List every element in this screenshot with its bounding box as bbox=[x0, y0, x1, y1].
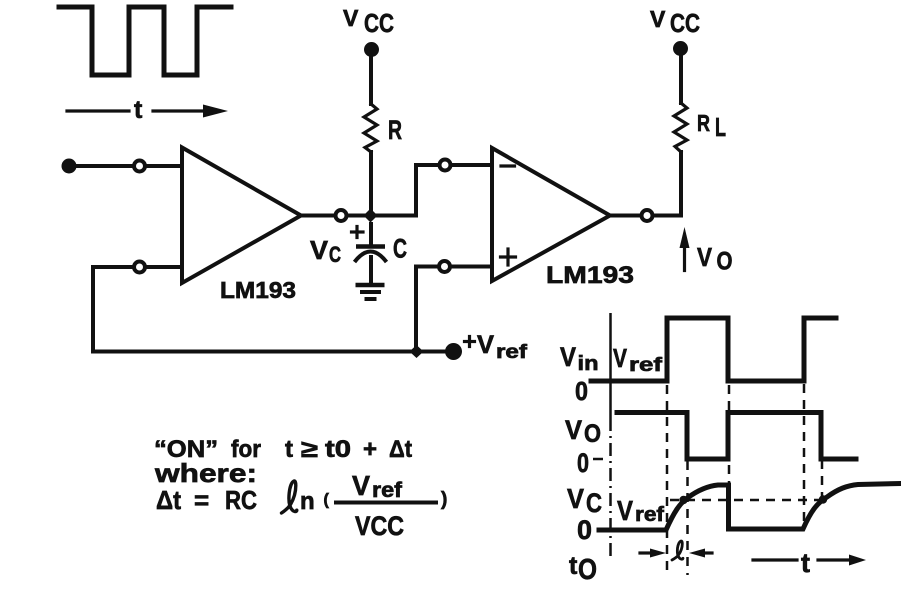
capacitor C (polarized) top plate bbox=[356, 244, 385, 249]
svg-text:Δt=RC: Δt=RC bbox=[156, 485, 257, 515]
label VO (panel) bbox=[565, 415, 601, 448]
label Vref (VC panel) bbox=[617, 495, 664, 526]
wire feedback down and across to Vref node bbox=[93, 267, 410, 352]
svg-text:V: V bbox=[565, 415, 582, 445]
svg-text:V: V bbox=[560, 342, 576, 372]
svg-text:t: t bbox=[801, 548, 810, 578]
pin circle U2 output bbox=[642, 210, 653, 221]
label VC (capacitor voltage) bbox=[310, 235, 341, 267]
wire U2 plus input down to Vref node bbox=[414, 267, 418, 347]
wire VC node right and up to U2 inverting input bbox=[376, 165, 438, 216]
wire U1 feedback input segment bbox=[133, 265, 182, 269]
label + polarity of C bbox=[352, 227, 364, 238]
svg-text:V: V bbox=[697, 242, 713, 272]
svg-text:V: V bbox=[617, 495, 633, 526]
dashed vertical at Vin falling edge bbox=[728, 385, 731, 501]
svg-text:): ) bbox=[441, 489, 447, 510]
formula script ell and n bbox=[282, 481, 315, 515]
svg-text:V: V bbox=[567, 483, 584, 514]
delta-t marker arrows with script ell bbox=[640, 541, 712, 560]
input terminal dot bbox=[62, 159, 77, 174]
svg-text:CC: CC bbox=[364, 8, 394, 38]
resistor RL bbox=[674, 103, 687, 152]
label t0 (time origin) bbox=[569, 552, 597, 586]
label RL bbox=[697, 110, 726, 142]
wire VC node up to resistor R bbox=[369, 152, 373, 215]
dashed vertical at t0 rising edge bbox=[666, 385, 669, 575]
svg-text:V: V bbox=[310, 235, 329, 265]
capacitor C bottom curved plate bbox=[355, 252, 387, 263]
svg-text:R: R bbox=[697, 110, 710, 136]
svg-text:t: t bbox=[134, 96, 143, 124]
wire pin circle to U2 plus input bbox=[451, 265, 492, 269]
arrow VO (output voltage) bbox=[680, 227, 690, 271]
svg-text:V: V bbox=[650, 6, 666, 32]
svg-text:C: C bbox=[586, 488, 602, 518]
waveform Vin trace bbox=[591, 318, 836, 381]
wire VC node down to capacitor C bbox=[369, 224, 373, 245]
svg-text:C: C bbox=[329, 242, 341, 267]
label VCC (right) bbox=[650, 6, 700, 38]
wire pin circle to U1 bbox=[147, 164, 181, 168]
pin circle U2 non-inverting input bbox=[439, 261, 450, 272]
svg-text:where:: where: bbox=[154, 458, 257, 488]
svg-text:V: V bbox=[352, 470, 370, 501]
waveform VC trace bbox=[599, 484, 899, 531]
svg-text:0: 0 bbox=[575, 376, 588, 406]
crossing dot 1 VC=Vref bbox=[679, 496, 687, 504]
svg-text:L: L bbox=[715, 112, 726, 142]
label Vin bbox=[560, 342, 599, 375]
formula fraction numerator Vref bbox=[352, 470, 403, 502]
svg-text:V: V bbox=[477, 331, 494, 359]
svg-text:CC: CC bbox=[670, 8, 700, 38]
label VC (panel) bbox=[567, 483, 602, 518]
svg-text:LM193: LM193 bbox=[546, 262, 634, 289]
svg-text:0: 0 bbox=[577, 515, 592, 545]
svg-text:R: R bbox=[388, 115, 402, 145]
waveform axis vertical bbox=[609, 313, 612, 556]
dashed horizontal Vref level line bbox=[670, 499, 822, 502]
VCC terminal dot (right) bbox=[673, 41, 688, 56]
resistor R bbox=[364, 104, 377, 152]
label +Vref bbox=[465, 331, 528, 363]
formula fraction bar bbox=[334, 501, 438, 505]
waveform VO trace bbox=[617, 413, 856, 460]
wire U2 output to pin circle bbox=[610, 214, 640, 218]
svg-text:ref: ref bbox=[496, 342, 528, 363]
dashed vertical at second crossing bbox=[821, 460, 824, 497]
label 0 with dash (VO panel) bbox=[577, 448, 603, 478]
VCC terminal dot (left) bbox=[364, 42, 379, 57]
node VC junction (diamond) bbox=[364, 209, 378, 223]
svg-text:VCC: VCC bbox=[355, 511, 404, 541]
op-amp U2 (LM193 comparator, right) bbox=[492, 148, 610, 281]
terminal dot +Vref bbox=[445, 343, 462, 360]
svg-text:ref: ref bbox=[629, 355, 663, 376]
svg-text:n: n bbox=[300, 488, 315, 515]
svg-text:ref: ref bbox=[372, 479, 403, 502]
label Vref (Vin panel) bbox=[613, 343, 663, 376]
svg-text:V: V bbox=[613, 343, 628, 373]
label plus sign U2 non-inverting input bbox=[501, 249, 516, 265]
svg-text:(: ( bbox=[324, 492, 330, 509]
wire resistor RL to VCC terminal bbox=[679, 53, 683, 103]
svg-text:LM193: LM193 bbox=[220, 277, 296, 303]
wire capacitor to ground bbox=[369, 257, 373, 283]
wire U1 output pin to VC node bbox=[348, 214, 366, 218]
wire U2 output pin to RL bbox=[654, 152, 681, 216]
crossing dot 2 VC=Vref bbox=[819, 495, 827, 503]
wire resistor R to VCC terminal bbox=[369, 54, 373, 104]
svg-text:C: C bbox=[393, 234, 407, 264]
svg-text:0: 0 bbox=[577, 448, 589, 478]
dashed vertical at t0+dt bbox=[686, 461, 689, 575]
pin circle U2 inverting input bbox=[440, 160, 451, 171]
ground bbox=[356, 285, 385, 299]
svg-text:ref: ref bbox=[635, 504, 664, 526]
time axis arrow t (bottom) bbox=[753, 548, 866, 578]
wire pin circle to U2 minus input bbox=[452, 163, 492, 167]
pin circle U1 output bbox=[336, 210, 347, 221]
wire U2 non-inverting input stub bbox=[416, 265, 438, 269]
input square-wave symbol bbox=[59, 7, 231, 75]
svg-text:O: O bbox=[578, 554, 597, 586]
label VO (output) bbox=[697, 242, 733, 276]
svg-text:V: V bbox=[343, 5, 359, 31]
pin circle U1 feedback input bbox=[134, 262, 145, 273]
label minus sign U2 inverting input bbox=[501, 164, 515, 167]
node Vref junction (diamond) bbox=[410, 345, 424, 358]
wire input terminal to U1 input pin bbox=[76, 164, 132, 168]
svg-text:in: in bbox=[578, 353, 599, 375]
pin circle U1 signal input bbox=[134, 161, 145, 172]
wire U1 output to pin circle bbox=[301, 214, 334, 218]
label VCC (left) bbox=[343, 5, 394, 38]
wire Vref node to terminal bbox=[423, 350, 447, 354]
svg-text:O: O bbox=[717, 248, 733, 276]
op-amp U1 (LM193 comparator, left) bbox=[182, 148, 301, 284]
svg-text:t: t bbox=[569, 552, 578, 580]
time axis arrow t (top-left) bbox=[67, 96, 228, 124]
svg-text:O: O bbox=[584, 420, 601, 448]
dashed vertical at second rising edge bbox=[803, 384, 806, 522]
